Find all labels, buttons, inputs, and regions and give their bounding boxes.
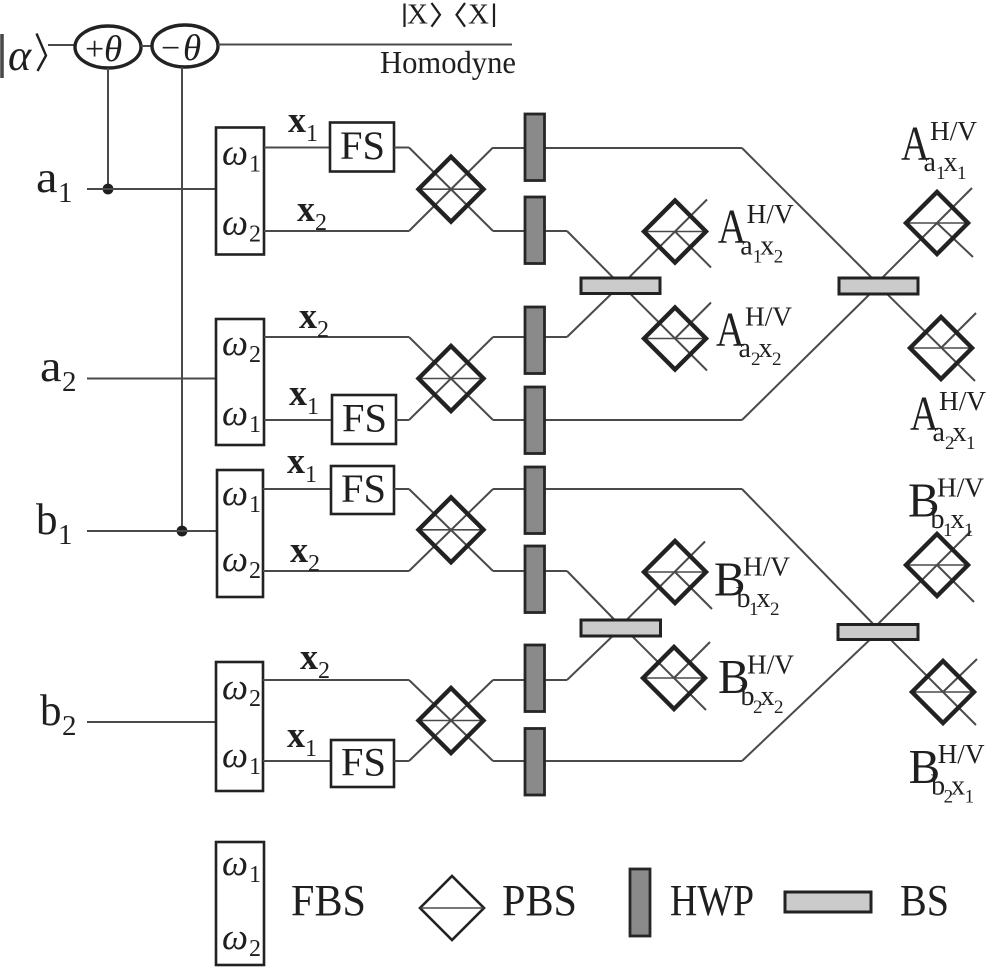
wire BS1 out down through PBS Aa2x2 <box>620 284 707 371</box>
wire FS4 out <box>394 760 409 762</box>
svg-text:1: 1 <box>249 412 261 438</box>
PBS Bb1x2 midline <box>644 571 706 573</box>
PBS Aa1x1 <box>906 192 968 254</box>
svg-text:2: 2 <box>62 710 77 742</box>
svg-text:1: 1 <box>249 862 261 888</box>
beam splitter BS4 (B right) <box>838 625 918 640</box>
wire input a1 <box>87 188 218 190</box>
svg-text:x: x <box>297 189 315 230</box>
wire a2x1 diag to BS2 <box>742 286 878 420</box>
FBS F3 (b1) <box>217 470 263 597</box>
svg-text:2: 2 <box>249 558 261 584</box>
PBS P4 <box>419 688 484 753</box>
svg-text:x: x <box>287 441 305 482</box>
svg-text:a: a <box>36 153 58 202</box>
wire PBS Aa1x2 reflected stub <box>675 232 711 268</box>
svg-text:1: 1 <box>58 177 73 209</box>
detector label A a1x1 <box>901 116 978 185</box>
svg-text:FS: FS <box>340 123 385 168</box>
wire BS2 out down through PBS Aa2x1 <box>879 286 975 381</box>
PBS Bb2x2 <box>643 647 705 709</box>
svg-text:X: X <box>407 0 428 31</box>
label x2 (a2) <box>299 296 329 343</box>
svg-text:H/V: H/V <box>747 649 795 679</box>
wire BS4 out down through PBS Bb2x1 <box>881 630 976 725</box>
PBS P2 <box>419 346 484 411</box>
detector label B b1x1 <box>908 472 985 541</box>
svg-text:a: a <box>924 147 937 178</box>
wire F2 w2 out <box>264 336 409 338</box>
svg-text:x: x <box>290 530 308 571</box>
wire +theta drop to a1 <box>107 68 109 189</box>
PBS P1 <box>419 157 484 222</box>
svg-text:x: x <box>951 771 965 802</box>
svg-text:+: + <box>85 31 104 68</box>
label x1 (b2) <box>287 715 317 762</box>
svg-text:1: 1 <box>305 736 317 762</box>
PBS Bb2x2 midline <box>643 677 705 679</box>
frequency shifter FS3 <box>331 466 394 514</box>
svg-text:2: 2 <box>318 658 330 684</box>
svg-text:H/V: H/V <box>747 199 795 229</box>
label x2 (b2) <box>300 637 330 684</box>
wire PBS Aa2x1 reflected stub <box>941 313 976 348</box>
svg-text:H/V: H/V <box>743 552 791 582</box>
wire b1x1 diag to BS4 <box>742 489 880 631</box>
HWP b2x1 <box>525 729 545 796</box>
svg-text:α: α <box>8 31 32 80</box>
wire a1x2 to BS <box>493 231 621 286</box>
PBS Bb2x1 midline <box>912 691 974 693</box>
label x2 (b1) <box>290 530 320 577</box>
wire PBS Bb2x2 reflected stub <box>674 642 710 678</box>
frequency shifter FS2 <box>332 395 396 444</box>
wire BS3 out down through PBS Bb2x2 <box>617 621 706 710</box>
projector |X><X| label <box>405 0 495 31</box>
svg-text:ω: ω <box>222 843 248 884</box>
mode label a2 <box>40 342 77 398</box>
legend HWP symbol <box>630 869 650 936</box>
svg-text:ω: ω <box>222 473 248 514</box>
svg-text:x: x <box>288 100 306 141</box>
mode label a1 <box>36 153 73 209</box>
wire b1x2 to BS <box>493 571 622 628</box>
svg-text:BS: BS <box>900 876 949 925</box>
svg-text:x: x <box>757 583 771 614</box>
FBS F1 (a1) <box>216 128 264 255</box>
svg-text:x: x <box>761 681 775 712</box>
PBS P2 arms <box>409 337 493 420</box>
node junction on a1 <box>103 184 114 195</box>
svg-text:1: 1 <box>307 394 319 420</box>
Homodyne label <box>380 44 516 80</box>
svg-text:x: x <box>759 333 773 364</box>
svg-text:1: 1 <box>58 519 73 551</box>
wire input a2 <box>87 378 218 380</box>
legend HWP label <box>670 876 754 925</box>
svg-text:x: x <box>760 230 774 261</box>
svg-text:2: 2 <box>62 366 77 398</box>
FBS F4 (b2) <box>216 662 263 791</box>
svg-text:1: 1 <box>964 520 974 541</box>
wire BS1 out up through PBS Aa1x2 <box>620 200 707 287</box>
svg-text:1: 1 <box>249 152 261 178</box>
PBS P3 midline <box>419 529 484 531</box>
svg-text:1: 1 <box>306 121 318 147</box>
PBS P2 midline <box>419 378 484 380</box>
svg-text:H/V: H/V <box>937 473 985 503</box>
svg-text:2: 2 <box>315 210 327 236</box>
wire F4 w1 out to FS4 <box>263 760 332 762</box>
svg-text:θ: θ <box>183 28 201 69</box>
wire b2x2 to BS <box>493 628 621 680</box>
svg-text:1: 1 <box>249 754 261 780</box>
svg-text:2: 2 <box>249 342 261 368</box>
detector label B b2x1 <box>909 739 986 808</box>
PBS Aa2x2 <box>644 308 706 370</box>
input state |alpha> ket label <box>2 31 46 80</box>
svg-text:FS: FS <box>342 396 387 441</box>
PBS P1 arms <box>409 148 493 232</box>
HWP b1x1 <box>525 467 545 534</box>
label x1 (a1) <box>288 100 318 147</box>
svg-text:a: a <box>40 342 62 391</box>
svg-text:H/V: H/V <box>939 386 987 416</box>
PBS Bb1x1 midline <box>906 564 968 566</box>
svg-text:1: 1 <box>965 787 975 808</box>
wire input b2 <box>87 721 218 723</box>
PBS P4 midline <box>419 720 484 722</box>
node junction on b1 <box>177 526 188 537</box>
PBS Aa1x2 <box>644 201 706 263</box>
wire BS2 out up through PBS Aa1x1 <box>878 188 972 282</box>
svg-text:ω: ω <box>222 323 248 364</box>
wire PBS Bb1x2 reflected stub <box>675 572 712 609</box>
wire BS3 out up through PBS Bb1x2 <box>618 542 705 629</box>
svg-text:HWP: HWP <box>670 876 754 925</box>
PBS Aa2x1 midline <box>910 347 972 349</box>
svg-text:X: X <box>468 0 489 31</box>
wire input b1 <box>87 530 219 532</box>
svg-text:x: x <box>300 637 318 678</box>
PBS P4 arms <box>409 680 493 761</box>
svg-text:a: a <box>933 417 946 448</box>
HWP a1x1 <box>525 114 545 181</box>
wire PBS Aa1x1 reflected stub <box>937 223 973 257</box>
FBS F2 (a2) <box>216 319 264 445</box>
svg-text:H/V: H/V <box>745 302 793 332</box>
svg-text:x: x <box>953 417 967 448</box>
detector label A a2x2 <box>716 301 793 370</box>
PBS Aa1x1 midline <box>906 222 968 224</box>
PBS P1 midline <box>419 188 484 190</box>
wire -theta to homodyne <box>218 44 512 46</box>
wire F1 w2 out <box>264 230 409 232</box>
svg-text:2: 2 <box>770 599 780 620</box>
svg-text:2: 2 <box>317 317 329 343</box>
phase modulator -theta <box>152 25 218 69</box>
wire F2 w1 out to FS2 <box>264 419 333 421</box>
PBS Aa2x2 midline <box>644 338 706 340</box>
beam splitter BS3 (B middle) <box>581 620 661 636</box>
frequency shifter FS4 <box>331 740 394 788</box>
HWP a2x1 <box>525 387 545 454</box>
wire FS2 out <box>396 419 409 421</box>
svg-text:x: x <box>951 504 965 535</box>
detector label B b1x2 <box>714 551 791 620</box>
phase modulator +theta <box>75 26 141 70</box>
label x2 (a1) <box>297 189 327 236</box>
beam splitter BS2 (A right) <box>839 278 918 294</box>
wire PBS Aa2x2 reflected stub <box>675 303 711 339</box>
svg-text:ω: ω <box>222 667 248 708</box>
PBS Aa2x1 <box>910 317 972 379</box>
svg-text:x: x <box>289 373 307 414</box>
wire b2x1 to right <box>493 760 742 762</box>
svg-text:FBS: FBS <box>291 876 366 925</box>
svg-text:b: b <box>36 495 58 544</box>
svg-text:2: 2 <box>308 551 320 577</box>
svg-text:FS: FS <box>341 740 386 785</box>
svg-text:2: 2 <box>774 246 784 267</box>
wire FS1 out <box>394 147 409 149</box>
HWP b2x2 <box>525 645 545 712</box>
PBS P3 <box>419 497 484 562</box>
frequency shifter FS1 <box>330 123 394 172</box>
wire BS4 out up through PBS Bb1x1 <box>877 531 971 625</box>
svg-text:2: 2 <box>249 936 261 962</box>
label x1 (b1) <box>287 441 317 488</box>
svg-text:x: x <box>944 147 958 178</box>
wire b1x1 to right <box>493 488 742 490</box>
wire PBS Bb1x1 reflected stub <box>937 565 974 602</box>
svg-text:PBS: PBS <box>502 876 577 925</box>
wire a2x2 to BS <box>493 285 621 338</box>
wire F3 w1 out to FS3 <box>263 488 332 490</box>
legend FBS label <box>291 876 366 925</box>
detector label A a2x1 <box>910 386 987 455</box>
legend PBS symbol <box>420 876 484 940</box>
svg-text:a: a <box>739 333 752 364</box>
svg-text:ω: ω <box>222 203 248 244</box>
wire a2x1 to right <box>493 419 742 421</box>
svg-text:x: x <box>287 715 305 756</box>
PBS P3 arms <box>409 489 493 571</box>
svg-text:a: a <box>740 230 753 261</box>
legend BS label <box>900 876 949 925</box>
HWP a1x2 <box>525 197 545 264</box>
svg-text:FS: FS <box>341 466 386 511</box>
wire a1x1 diag to BS2 <box>742 148 880 286</box>
wire b2x1 diag to BS4 <box>742 632 878 761</box>
detector label A a1x2 <box>718 199 795 268</box>
beam splitter BS1 (A middle) <box>581 278 660 294</box>
svg-text:ω: ω <box>222 393 248 434</box>
PBS Aa1x2 midline <box>644 231 706 233</box>
svg-text:ω: ω <box>222 735 248 776</box>
svg-text:θ: θ <box>104 29 122 70</box>
svg-text:H/V: H/V <box>938 739 986 769</box>
wire between modulators <box>141 45 152 47</box>
HWP b1x2 <box>525 546 545 613</box>
svg-text:2: 2 <box>772 349 782 370</box>
wire PBS Bb2x1 reflected stub <box>943 659 977 692</box>
svg-text:1: 1 <box>305 462 317 488</box>
detector label B b2x2 <box>718 649 795 718</box>
wire FS3 out <box>394 488 409 490</box>
PBS Bb1x2 <box>644 541 706 603</box>
svg-text:ω: ω <box>222 539 248 580</box>
svg-text:1: 1 <box>249 492 261 518</box>
PBS Bb2x1 <box>912 661 974 723</box>
mode label b1 <box>36 495 73 551</box>
svg-text:−: − <box>161 30 180 67</box>
wire -theta drop to b1 <box>181 67 183 531</box>
svg-text:H/V: H/V <box>930 116 978 146</box>
HWP a2x2 <box>525 307 545 374</box>
mode label b2 <box>40 686 77 742</box>
PBS Bb1x1 <box>906 534 968 596</box>
wire F1 w1 out to FS1 <box>264 147 331 149</box>
svg-text:2: 2 <box>249 686 261 712</box>
legend BS symbol <box>785 892 871 912</box>
svg-text:ω: ω <box>222 917 248 958</box>
wire F3 w2 out <box>263 570 409 572</box>
svg-text:1: 1 <box>966 433 976 454</box>
svg-text:1: 1 <box>957 163 967 184</box>
label x1 (a2) <box>289 373 319 420</box>
svg-text:b: b <box>40 686 62 735</box>
svg-text:Homodyne: Homodyne <box>380 44 516 80</box>
svg-text:ω: ω <box>222 133 248 174</box>
wire a1x1 to right <box>493 147 742 149</box>
legend FBS symbol <box>216 842 264 965</box>
wire F4 w2 out <box>263 679 409 681</box>
svg-text:2: 2 <box>249 222 261 248</box>
legend PBS label <box>502 876 577 925</box>
svg-text:x: x <box>299 296 317 337</box>
wire |alpha> to +theta <box>48 44 76 46</box>
svg-text:2: 2 <box>774 697 784 718</box>
